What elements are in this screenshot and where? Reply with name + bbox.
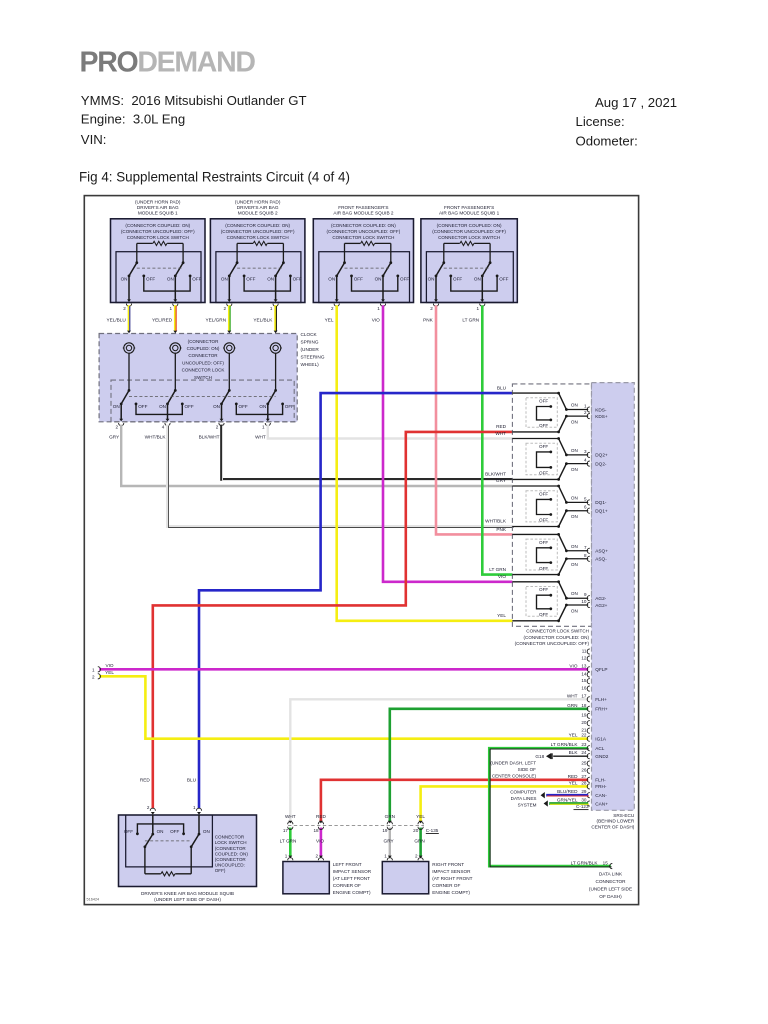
wire YEL from page edge to SRS-ECU pin 22: [99, 676, 588, 738]
svg-text:CORNER OF: CORNER OF: [333, 883, 361, 888]
svg-text:1: 1: [92, 667, 95, 672]
ECU pin 24: [569, 750, 609, 759]
svg-text:516424: 516424: [87, 898, 100, 902]
svg-text:YEL: YEL: [569, 780, 578, 785]
svg-text:CENTER OF DASH): CENTER OF DASH): [591, 824, 634, 829]
svg-text:PNK: PNK: [423, 318, 434, 323]
knee module OFF bracket: [136, 832, 139, 835]
svg-text:Fig 4: Supplemental Restraints: Fig 4: Supplemental Restraints Circuit (…: [79, 170, 350, 185]
svg-text:GRN: GRN: [567, 703, 577, 708]
svg-text:LT GRN/BLK: LT GRN/BLK: [551, 742, 579, 747]
ECU pin 29: [557, 789, 607, 798]
svg-text:WHT/BLK: WHT/BLK: [145, 435, 167, 440]
svg-text:C-123: C-123: [576, 804, 589, 809]
ECU pin 14: [581, 671, 589, 677]
svg-text:OFF: OFF: [246, 276, 255, 281]
svg-text:OFF: OFF: [539, 399, 548, 404]
svg-text:DRIVER'S AIR BAG: DRIVER'S AIR BAG: [137, 205, 179, 210]
svg-text:OFF: OFF: [539, 423, 548, 428]
svg-text:COMPUTER: COMPUTER: [510, 789, 537, 794]
svg-text:7: 7: [584, 545, 587, 550]
svg-text:CONNECTOR LOCK SWITCH: CONNECTOR LOCK SWITCH: [438, 235, 500, 240]
svg-text:WHT: WHT: [255, 435, 266, 440]
svg-text:LT GRN: LT GRN: [280, 838, 297, 843]
svg-text:GRY: GRY: [384, 838, 395, 843]
svg-text:DQ2+: DQ2+: [595, 453, 608, 458]
svg-text:17: 17: [581, 693, 587, 698]
ECU pin 25: [581, 760, 589, 766]
svg-text:VIO: VIO: [569, 663, 577, 668]
svg-text:18: 18: [581, 703, 587, 708]
connector lock switch contacts in U3 passenger air bag squib 2: [344, 243, 346, 262]
svg-text:MODULE SQUIB 2: MODULE SQUIB 2: [238, 211, 278, 216]
svg-text:1: 1: [170, 306, 173, 311]
SRS-ECU module box: [592, 383, 635, 811]
knee module switch 1: [152, 815, 154, 834]
svg-text:CONNECTOR LOCK SWITCH: CONNECTOR LOCK SWITCH: [332, 235, 394, 240]
svg-text:1: 1: [377, 306, 380, 311]
svg-text:OFF: OFF: [539, 444, 548, 449]
svg-text:Odometer:: Odometer:: [576, 133, 638, 148]
svg-text:OFF: OFF: [539, 566, 548, 571]
ECU pin 30: [557, 798, 608, 807]
svg-text:(CONNECTOR COUPLED: ON): (CONNECTOR COUPLED: ON): [437, 223, 502, 228]
svg-text:(UNDER LEFT SIDE OF DASH): (UNDER LEFT SIDE OF DASH): [154, 897, 221, 902]
svg-text:4: 4: [162, 425, 165, 430]
ECU pin 21: [581, 728, 589, 734]
C-135 terminal pair: [318, 822, 323, 825]
clock spring switch 2: [159, 353, 194, 425]
svg-text:OFF: OFF: [138, 404, 147, 409]
svg-text:CAN+: CAN+: [595, 801, 608, 806]
svg-text:OFF: OFF: [124, 829, 133, 834]
svg-text:(UNDER: (UNDER: [301, 347, 320, 352]
svg-text:CONNECTOR LOCK SWITCH: CONNECTOR LOCK SWITCH: [127, 235, 189, 240]
svg-text:CONNECTOR LOCK SWITCH: CONNECTOR LOCK SWITCH: [526, 629, 589, 634]
svg-text:20: 20: [413, 828, 419, 833]
clock spring switch 4: [259, 353, 294, 425]
svg-text:17: 17: [283, 828, 289, 833]
svg-text:2: 2: [331, 306, 334, 311]
wire BLU/RED CAN- to computer data lines: [546, 794, 588, 797]
right front impact sensor box: [382, 862, 428, 894]
svg-text:24: 24: [581, 750, 587, 755]
svg-text:CONNECTOR: CONNECTOR: [595, 879, 626, 884]
knee module terminals: [150, 808, 155, 811]
svg-text:2: 2: [92, 674, 95, 679]
svg-text:KDS+: KDS+: [595, 414, 608, 419]
svg-text:(BEHIND LOWER: (BEHIND LOWER: [597, 819, 635, 824]
svg-text:OF DASH): OF DASH): [599, 894, 622, 899]
svg-text:(AT LEFT FRONT: (AT LEFT FRONT: [333, 876, 370, 881]
svg-text:ON: ON: [571, 448, 578, 453]
driver knee air bag module box: [119, 815, 257, 887]
svg-text:SYSTEM: SYSTEM: [518, 803, 537, 808]
svg-text:(CONNECTOR: (CONNECTOR: [215, 846, 247, 851]
svg-text:VIN:: VIN:: [81, 132, 107, 147]
svg-text:2: 2: [216, 425, 219, 430]
svg-text:ON: ON: [571, 495, 578, 500]
knee module dashed link: [145, 840, 191, 842]
svg-text:25: 25: [581, 760, 587, 765]
svg-text:20: 20: [581, 720, 587, 725]
ECU pin 15: [581, 678, 589, 684]
svg-text:YEL/BLU: YEL/BLU: [107, 318, 127, 323]
svg-text:FLH+: FLH+: [595, 697, 607, 702]
svg-text:RIGHT FRONT: RIGHT FRONT: [432, 862, 464, 867]
svg-text:19: 19: [581, 713, 587, 718]
svg-text:OFF: OFF: [239, 404, 248, 409]
svg-text:(UNDER LEFT SIDE: (UNDER LEFT SIDE: [589, 887, 632, 892]
svg-text:ENGINE COMPT): ENGINE COMPT): [432, 890, 470, 895]
svg-text:License:: License:: [576, 114, 625, 129]
SRS-ECU lock switch group 5 (pins 9/10): [512, 580, 607, 622]
svg-text:WHT/BLK: WHT/BLK: [485, 519, 507, 524]
svg-text:WHT: WHT: [285, 814, 296, 819]
left front impact sensor box: [283, 862, 329, 894]
svg-text:(CONNECTOR UNCOUPLED: OFF): (CONNECTOR UNCOUPLED: OFF): [432, 229, 506, 234]
svg-text:WHEEL): WHEEL): [301, 362, 320, 367]
connector lock switch contacts in U2 driver air bag squib 2: [236, 243, 238, 262]
ECU pin 22: [569, 733, 607, 742]
svg-text:ASQ+: ASQ+: [595, 549, 608, 554]
svg-text:YEL: YEL: [105, 670, 114, 675]
clock spring coil 4: [270, 343, 280, 353]
svg-text:19: 19: [382, 828, 388, 833]
svg-text:FRONT PASSENGER'S: FRONT PASSENGER'S: [338, 205, 388, 210]
svg-text:IMPACT SENSOR: IMPACT SENSOR: [432, 869, 471, 874]
svg-text:OFF: OFF: [539, 540, 548, 545]
svg-text:DQ1-: DQ1-: [595, 500, 607, 505]
svg-text:ASQ-: ASQ-: [595, 557, 607, 562]
svg-text:ON: ON: [159, 404, 166, 409]
svg-text:Aug 17 , 2021: Aug 17 , 2021: [595, 95, 677, 110]
svg-text:(UNDER HORN PAD): (UNDER HORN PAD): [135, 200, 181, 205]
wire LT GRN squib4-1 to SRS-ECU: [482, 305, 512, 574]
ECU pin 17: [567, 693, 607, 702]
svg-text:11: 11: [582, 648, 587, 653]
svg-text:ON: ON: [428, 276, 435, 281]
svg-text:IMPACT SENSOR: IMPACT SENSOR: [333, 869, 372, 874]
svg-text:YEL: YEL: [416, 814, 425, 819]
connector lock switch contacts in U4 passenger air bag squib 1: [443, 243, 445, 262]
svg-text:(CONNECTOR COUPLED: ON): (CONNECTOR COUPLED: ON): [225, 223, 290, 228]
svg-text:ON: ON: [375, 276, 382, 281]
svg-text:RED: RED: [496, 424, 507, 429]
ECU pin 27: [568, 774, 607, 783]
SRS-ECU lock switch group 3 (pins 5/6): [512, 485, 608, 528]
svg-text:ON: ON: [167, 276, 174, 281]
svg-text:ON: ON: [571, 419, 578, 424]
wire BLU SRS-ECU to knee air bag squib: [199, 393, 512, 808]
ECU pin 28: [569, 780, 607, 789]
svg-text:GRN: GRN: [385, 814, 395, 819]
terminal cups of U4 passenger air bag squib 1: [433, 304, 438, 307]
svg-text:YEL/BLK: YEL/BLK: [253, 318, 273, 323]
svg-text:UNCOUPLED: OFF): UNCOUPLED: OFF): [182, 360, 224, 365]
svg-text:COUPLED: ON): COUPLED: ON): [215, 851, 249, 856]
svg-text:(CONNECTOR: (CONNECTOR: [188, 339, 219, 344]
wire YEL squib3-2 to SRS-ECU: [337, 305, 513, 621]
svg-text:YMMS: 2016 Mitsubishi Outland: YMMS: 2016 Mitsubishi Outlander GT: [81, 93, 307, 108]
svg-text:BLU: BLU: [497, 385, 507, 390]
svg-text:2: 2: [147, 805, 150, 810]
svg-text:C-135: C-135: [426, 828, 439, 833]
svg-text:CENTER CONSOLE): CENTER CONSOLE): [492, 773, 537, 778]
svg-text:BLK/WHT: BLK/WHT: [485, 472, 506, 477]
svg-text:14: 14: [581, 671, 587, 676]
C-135 terminal pair: [387, 822, 392, 825]
svg-text:OFF: OFF: [354, 276, 363, 281]
svg-text:1: 1: [270, 306, 273, 311]
svg-text:ON: ON: [121, 276, 128, 281]
svg-text:SIDE OF: SIDE OF: [518, 767, 537, 772]
knee module squib resistor: [161, 872, 175, 876]
svg-text:DATA LINK: DATA LINK: [599, 871, 623, 876]
svg-text:1: 1: [584, 404, 587, 409]
svg-text:12: 12: [581, 655, 587, 660]
svg-text:(CONNECTOR UNCOUPLED: OFF): (CONNECTOR UNCOUPLED: OFF): [327, 229, 401, 234]
svg-text:BLK: BLK: [569, 750, 579, 755]
svg-text:G18: G18: [535, 754, 544, 759]
clock spring coil 3: [224, 343, 234, 353]
svg-text:23: 23: [581, 742, 587, 747]
svg-text:RED: RED: [316, 814, 327, 819]
svg-text:OFF: OFF: [192, 276, 201, 281]
wire VIO squib3-1 to SRS-ECU: [383, 305, 512, 582]
svg-text:ON: ON: [203, 829, 210, 834]
svg-text:PRODEMAND: PRODEMAND: [80, 47, 256, 79]
svg-text:OFF: OFF: [146, 276, 155, 281]
svg-text:FRH+: FRH+: [595, 707, 608, 712]
ECU pin 11: [582, 648, 590, 654]
wire RED SRS-ECU to knee air bag squib: [153, 432, 513, 808]
wire GRN SRS-ECU pin18 to C-135: [390, 709, 588, 821]
wire VIO from page edge to SRS-ECU pin 13: [99, 668, 588, 671]
svg-text:ON: ON: [113, 404, 120, 409]
ECU pin 16: [581, 685, 589, 691]
knee module switch 2: [198, 815, 200, 834]
svg-text:GRY: GRY: [109, 435, 120, 440]
svg-text:5: 5: [584, 496, 587, 501]
svg-text:2: 2: [115, 425, 118, 430]
ECU pin 19: [581, 713, 589, 719]
svg-text:15: 15: [603, 860, 609, 865]
SRS-ECU lock switch group 2 (pins 3/4): [512, 437, 608, 481]
svg-text:SWITCH: SWITCH: [194, 375, 212, 380]
svg-text:ON: ON: [571, 514, 578, 519]
connector C-135 dashed line: [288, 825, 424, 827]
svg-text:9: 9: [584, 592, 587, 597]
svg-text:CONNECTOR LOCK: CONNECTOR LOCK: [182, 368, 225, 373]
svg-text:Engine: 3.0L Eng: Engine: 3.0L Eng: [81, 111, 185, 126]
module box U1 driver air bag squib 1: [111, 200, 206, 312]
svg-text:8: 8: [584, 553, 587, 558]
svg-text:ON: ON: [157, 829, 164, 834]
wire BLK/WHT clock spring to SRS-ECU: [222, 425, 513, 480]
wire GRN C-135 to right sensor pin2: [419, 828, 422, 857]
svg-text:ACL: ACL: [595, 746, 605, 751]
svg-text:ON: ON: [571, 562, 578, 567]
svg-text:2: 2: [430, 306, 433, 311]
wire YEL/BLK squib2-1 to clock spring: [274, 305, 277, 330]
svg-text:GRN: GRN: [414, 838, 424, 843]
svg-text:29: 29: [581, 789, 587, 794]
svg-text:PNK: PNK: [496, 527, 507, 532]
svg-text:GRN/YEL: GRN/YEL: [557, 798, 578, 803]
ECU pin 12: [581, 655, 589, 661]
diagram border frame: [84, 196, 638, 905]
svg-text:AG2-: AG2-: [595, 596, 606, 601]
svg-text:RED: RED: [568, 774, 579, 779]
svg-text:YEL: YEL: [325, 318, 334, 323]
wire LT GRN/BLK SRS-ECU pin23 to data link connector: [489, 748, 611, 866]
svg-text:4: 4: [584, 458, 587, 463]
svg-text:OFF: OFF: [539, 612, 548, 617]
module box U3 passenger air bag squib 2: [313, 205, 413, 311]
svg-text:2: 2: [415, 854, 418, 859]
svg-text:COUPLED: ON): COUPLED: ON): [187, 346, 220, 351]
svg-text:15: 15: [581, 678, 587, 683]
ECU pin 23: [551, 742, 605, 751]
svg-text:GRY: GRY: [496, 478, 507, 483]
svg-text:BLU/RED: BLU/RED: [557, 789, 578, 794]
svg-text:YEL/RED: YEL/RED: [152, 318, 173, 323]
svg-text:16: 16: [581, 685, 587, 690]
svg-text:28: 28: [581, 780, 587, 785]
svg-text:OFF: OFF: [539, 471, 548, 476]
svg-text:1: 1: [262, 425, 265, 430]
svg-text:OFF): OFF): [215, 868, 226, 873]
wire VIO C-135 to left sensor pin2: [320, 828, 323, 857]
svg-text:10: 10: [581, 599, 587, 604]
svg-text:SPRING: SPRING: [301, 340, 319, 345]
svg-text:VIO: VIO: [105, 663, 113, 668]
svg-text:AIR BAG MODULE SQUIB 2: AIR BAG MODULE SQUIB 2: [333, 211, 394, 216]
svg-text:YEL/GRN: YEL/GRN: [206, 318, 227, 323]
wire LT GRN C-135 to left sensor pin1: [289, 828, 292, 857]
svg-text:DQ1+: DQ1+: [595, 509, 608, 514]
svg-text:LT GRN: LT GRN: [489, 567, 506, 572]
wire YEL/BLU squib1-2 to clock spring: [128, 305, 131, 330]
svg-text:SRS-ECU: SRS-ECU: [613, 813, 635, 818]
wire YEL/GRN squib2-2 to clock spring: [228, 305, 231, 330]
svg-text:CAN-: CAN-: [595, 793, 607, 798]
ECU pin 26: [581, 768, 589, 774]
svg-text:OFF: OFF: [453, 276, 462, 281]
svg-text:OFF: OFF: [285, 404, 294, 409]
svg-text:30: 30: [581, 798, 587, 803]
svg-text:DQ2-: DQ2-: [595, 461, 607, 466]
svg-text:(CONNECTOR COUPLED: ON): (CONNECTOR COUPLED: ON): [331, 223, 396, 228]
svg-text:CONNECTOR: CONNECTOR: [215, 835, 245, 840]
svg-text:QFLP: QFLP: [595, 667, 607, 672]
svg-text:OFF: OFF: [293, 276, 302, 281]
svg-text:BLK/WHT: BLK/WHT: [199, 435, 220, 440]
terminal cups of U2 driver air bag squib 2: [227, 304, 232, 307]
svg-text:IG1A: IG1A: [595, 737, 607, 742]
connector lock switch contacts in U1 driver air bag squib 1: [136, 243, 138, 262]
svg-text:OFF: OFF: [499, 276, 508, 281]
svg-text:VIO: VIO: [372, 318, 380, 323]
svg-text:22: 22: [581, 733, 587, 738]
svg-text:DRIVER'S AIR BAG: DRIVER'S AIR BAG: [237, 205, 279, 210]
svg-text:FRH-: FRH-: [595, 784, 607, 789]
svg-text:BLU: BLU: [187, 778, 197, 783]
svg-text:(CONNECTOR UNCOUPLED: OFF): (CONNECTOR UNCOUPLED: OFF): [515, 641, 590, 646]
svg-text:(CONNECTOR COUPLED: ON): (CONNECTOR COUPLED: ON): [125, 223, 190, 228]
svg-text:ON: ON: [259, 404, 266, 409]
svg-text:13: 13: [581, 663, 587, 668]
svg-text:YEL: YEL: [569, 733, 578, 738]
squib resistor in U2 driver air bag squib 2: [253, 241, 267, 245]
svg-text:OFF: OFF: [400, 276, 409, 281]
svg-text:RED: RED: [140, 778, 151, 783]
clock spring switch 1: [113, 353, 148, 425]
svg-text:1: 1: [477, 306, 480, 311]
svg-text:(CONNECTOR: (CONNECTOR: [215, 857, 247, 862]
svg-text:GND2: GND2: [595, 754, 608, 759]
terminal cups of U1 driver air bag squib 1: [126, 304, 131, 307]
wire YEL/RED squib1-1 to clock spring: [174, 305, 177, 330]
svg-text:MODULE SQUIB 1: MODULE SQUIB 1: [138, 211, 178, 216]
clock spring coil 1: [124, 343, 134, 353]
ground G18: [546, 753, 551, 759]
svg-text:YEL: YEL: [497, 613, 506, 618]
svg-text:WHT: WHT: [495, 431, 506, 436]
svg-text:2: 2: [224, 306, 227, 311]
svg-text:CONNECTOR LOCK SWITCH: CONNECTOR LOCK SWITCH: [227, 235, 289, 240]
svg-text:(CONNECTOR UNCOUPLED: OFF): (CONNECTOR UNCOUPLED: OFF): [221, 229, 295, 234]
svg-text:CLOCK: CLOCK: [301, 332, 318, 337]
svg-text:ON: ON: [571, 403, 578, 408]
wire GRN/YEL CAN+ to computer data lines: [549, 802, 588, 805]
svg-text:ON: ON: [571, 608, 578, 613]
squib resistor in U4 passenger air bag squib 1: [460, 241, 474, 245]
clock spring switch 3: [213, 353, 248, 425]
svg-text:ON: ON: [267, 276, 274, 281]
svg-text:(CONNECTOR COUPLED: ON): (CONNECTOR COUPLED: ON): [523, 635, 589, 640]
svg-text:ON: ON: [571, 544, 578, 549]
svg-text:ENGINE COMPT): ENGINE COMPT): [333, 890, 371, 895]
svg-text:UNCOUPLED:: UNCOUPLED:: [215, 863, 245, 868]
svg-text:(AT RIGHT FRONT: (AT RIGHT FRONT: [432, 876, 472, 881]
svg-text:ON: ON: [474, 276, 481, 281]
svg-text:ON: ON: [571, 467, 578, 472]
svg-text:FRONT PASSENGER'S: FRONT PASSENGER'S: [444, 205, 494, 210]
svg-text:2: 2: [123, 306, 126, 311]
wire GRY clock spring to SRS-ECU KDS group: [121, 425, 512, 486]
svg-text:CONNECTOR: CONNECTOR: [188, 353, 218, 358]
svg-text:ON: ON: [571, 591, 578, 596]
svg-text:DRIVER'S KNEE AIR BAG MODULE S: DRIVER'S KNEE AIR BAG MODULE SQUIB: [141, 891, 234, 896]
wire WHT SRS-ECU pin17 to C-135: [290, 699, 588, 821]
svg-text:18: 18: [313, 828, 319, 833]
svg-text:OFF: OFF: [170, 829, 179, 834]
svg-text:(UNDER HORN PAD): (UNDER HORN PAD): [235, 200, 281, 205]
svg-text:OFF: OFF: [539, 587, 548, 592]
wire GRY C-135 to right sensor pin1: [389, 828, 391, 857]
SRS-ECU lock switch group 4 (pins 7/8): [512, 533, 608, 576]
ECU pin 13: [569, 663, 607, 672]
svg-text:OFF: OFF: [539, 491, 548, 496]
svg-text:3: 3: [584, 449, 587, 454]
svg-text:27: 27: [581, 774, 587, 779]
svg-text:ON: ON: [213, 404, 220, 409]
wire WHT clock spring to SRS-ECU: [268, 425, 513, 439]
svg-text:(CONNECTOR UNCOUPLED: OFF): (CONNECTOR UNCOUPLED: OFF): [121, 229, 195, 234]
svg-text:LT GRN/BLK: LT GRN/BLK: [571, 860, 599, 865]
